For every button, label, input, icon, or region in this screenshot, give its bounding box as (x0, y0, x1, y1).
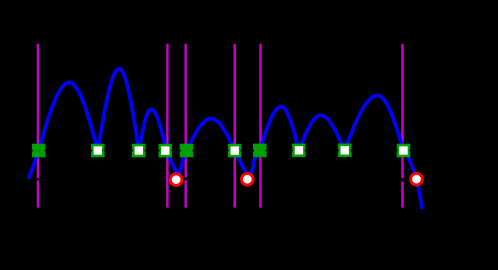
white-faced green square marker R10 x=403.5 (398, 145, 409, 156)
white-faced green square marker R4 x=165.3 (160, 145, 171, 156)
black gap marker on vline f (400, 178, 404, 181)
blue function curve (29, 69, 422, 208)
vertical magenta bracket line b at x=167.4 (166, 44, 168, 208)
vertical magenta bracket line e at x=260.5 (259, 44, 261, 208)
solid green square marker R1 x=38.7 (32, 144, 46, 158)
black gap marker on vline a (36, 178, 40, 180)
x-axis notches on marker edges (31, 150, 33, 152)
white-faced green square marker R2 x=97.8 (92, 145, 103, 156)
vertical magenta bracket line a at x=37.9 (37, 44, 39, 208)
red circle marker M2 (242, 173, 254, 185)
red circle marker M3 (411, 173, 423, 185)
white-faced green square marker R6 x=234.7 (229, 145, 240, 156)
solid green square marker R5 x=186.6 (180, 144, 194, 158)
white-faced green square marker R9 x=344.7 (339, 145, 350, 156)
vertical magenta bracket line d at x=234.7 (233, 44, 235, 208)
x-axis (black, hidden on background) (25, 150, 470, 152)
vertical magenta bracket line c at x=185.7 (184, 44, 186, 208)
white-faced green square marker R3 x=138.8 (133, 145, 144, 156)
solid green square marker R7 x=259.8 (253, 144, 267, 158)
black gap marker on vline c (184, 177, 188, 180)
vertical magenta bracket line f at x=402.5 (401, 44, 403, 208)
white-faced green square marker R8 x=298.9 (293, 145, 304, 156)
red circle marker M1 (170, 174, 182, 186)
